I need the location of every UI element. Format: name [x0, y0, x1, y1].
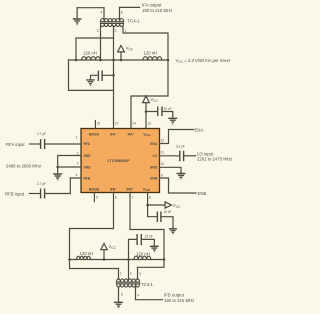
pin 5 stub	[93, 193, 95, 202]
svg-text:RFA input: RFA input	[6, 142, 25, 147]
ENA wire	[160, 130, 194, 144]
svg-text:RFB: RFB	[84, 177, 91, 181]
chip inside labels	[84, 132, 158, 193]
wire T1 pin3 to VCC rail	[100, 26, 102, 60]
VCC rail (top)	[69, 59, 169, 61]
VCC rail (bottom)	[70, 259, 165, 261]
svg-text:14: 14	[132, 122, 136, 126]
VCCA chain: pin13	[145, 112, 147, 129]
svg-text:11: 11	[161, 151, 165, 155]
svg-text:2261 to 2475 MHz: 2261 to 2475 MHz	[197, 157, 232, 162]
ground (C2)	[168, 118, 177, 124]
wires pins 2,3 GND	[58, 156, 81, 174]
svg-text:120 nH: 120 nH	[80, 251, 94, 256]
capacitor C6 10nF (VCCB bypass)	[148, 205, 158, 217]
svg-text:ENB: ENB	[150, 177, 157, 181]
svg-text:RFA: RFA	[84, 142, 91, 146]
T2 pin 6 lead to ground	[118, 287, 120, 302]
svg-text:GND: GND	[84, 154, 92, 158]
VCCB chain: pin8	[147, 193, 149, 206]
svg-text:ENB: ENB	[198, 191, 207, 196]
wire C3 to pin1	[45, 143, 81, 145]
svg-text:BIASA: BIASA	[89, 132, 100, 136]
wire T1 pin4 to ground	[77, 8, 104, 19]
svg-text:2: 2	[130, 272, 132, 276]
wire RFA to C3	[30, 143, 41, 145]
svg-text:6: 6	[121, 10, 123, 14]
LO input wire	[160, 155, 180, 157]
inductor L4 120 nH	[134, 256, 151, 259]
svg-text:1: 1	[124, 29, 126, 33]
svg-text:12: 12	[161, 139, 165, 143]
svg-text:TC4-1: TC4-1	[128, 19, 141, 24]
svg-text:GND: GND	[150, 166, 158, 170]
ground (C7)	[150, 246, 159, 251]
VCC arrow right (pin8)	[165, 202, 171, 208]
VCC arrow (bottom rail)	[101, 243, 117, 260]
svg-text:4: 4	[76, 173, 78, 177]
svg-text:2: 2	[77, 151, 79, 155]
chip U1 LTC5569	[81, 129, 160, 193]
svg-text:190 to 215 MHz: 190 to 215 MHz	[164, 298, 194, 303]
svg-text:120 nH: 120 nH	[144, 50, 158, 55]
node dot rail right	[167, 59, 170, 62]
svg-text:LTC5569IUF: LTC5569IUF	[107, 158, 130, 163]
svg-text:5: 5	[96, 196, 98, 200]
T2 pin leads top	[119, 278, 138, 280]
wire C4 to pin4	[45, 178, 81, 194]
svg-text:GND: GND	[84, 166, 92, 170]
svg-text:4: 4	[137, 293, 139, 297]
svg-text:LO: LO	[153, 154, 158, 158]
wire T1 pin1 to node / chip pin14 (IFA+)	[123, 26, 168, 129]
svg-text:3: 3	[77, 161, 79, 165]
T1 pin 4 lead	[103, 8, 105, 20]
svg-text:4: 4	[101, 10, 103, 14]
svg-text:15: 15	[115, 122, 119, 126]
inductor L3 120 nH	[77, 256, 91, 259]
capacitor C3 2.7pF	[41, 139, 45, 149]
capacitor C7 10nF (bottom bypass)	[127, 234, 154, 261]
svg-text:120 nH: 120 nH	[136, 252, 150, 257]
T1 pin 6 lead	[119, 7, 121, 19]
svg-text:IFB output: IFB output	[164, 293, 185, 298]
svg-text:TC4-1: TC4-1	[141, 282, 154, 287]
wire RFB to C4	[30, 193, 41, 195]
svg-text:RFB input: RFB input	[5, 192, 25, 197]
capacitor C2 10nF (VCCA bypass)	[146, 107, 173, 118]
svg-text:10 nF: 10 nF	[164, 107, 172, 111]
inductor L2 120 nH	[143, 57, 162, 60]
svg-text:BIASB: BIASB	[89, 187, 100, 191]
wire center tap T2	[128, 260, 130, 280]
ground (pins 2,3)	[53, 174, 62, 180]
svg-text:7: 7	[132, 196, 134, 200]
svg-text:6: 6	[115, 196, 117, 200]
inductor L1 120 nH	[82, 57, 101, 60]
svg-text:ENA: ENA	[150, 142, 157, 146]
svg-text:3: 3	[139, 272, 141, 276]
svg-text:10: 10	[161, 162, 165, 166]
svg-text:9: 9	[161, 173, 163, 177]
svg-text:1: 1	[76, 136, 78, 140]
wire T1 pin2 / chip pin15 (IFA-)	[113, 26, 115, 129]
svg-text:120 nH: 120 nH	[83, 50, 97, 55]
svg-text:2.7 pF: 2.7 pF	[37, 132, 46, 136]
svg-text:2496 to 2690 MHz: 2496 to 2690 MHz	[6, 164, 41, 169]
svg-text:1: 1	[120, 272, 122, 276]
pin 16 stub	[94, 121, 96, 129]
wire pin6 (IFB-) route	[70, 193, 119, 278]
wire jog rail left to pin15 line	[76, 38, 114, 60]
transformer T2 TC4-1 (IFB output transformer)	[117, 279, 140, 287]
svg-text:6: 6	[121, 292, 123, 296]
svg-text:16: 16	[97, 122, 101, 126]
capacitor C5 3.3pF	[180, 151, 184, 162]
capacitor C4 2.7pF	[41, 189, 45, 199]
chip pin number labels	[76, 122, 165, 200]
transformer T1 TC4-1 (IFA output transformer)	[101, 19, 124, 27]
svg-text:13: 13	[147, 122, 151, 126]
svg-text:3: 3	[97, 29, 99, 33]
ground (pin10)	[177, 174, 186, 180]
svg-text:2: 2	[115, 29, 117, 33]
T2 pin 4 lead to IFB output	[136, 287, 163, 300]
ENB wire	[160, 178, 197, 193]
svg-text:190 to 215 MHz: 190 to 215 MHz	[142, 8, 172, 13]
svg-text:8: 8	[149, 196, 151, 200]
svg-text:10 nF: 10 nF	[145, 235, 153, 239]
svg-text:10 nF: 10 nF	[163, 210, 171, 214]
ground (top left)	[73, 19, 82, 25]
ground (T2 pin6)	[114, 302, 123, 307]
wire pin7 (IFB+) route	[130, 193, 164, 278]
svg-text:ENA: ENA	[195, 127, 204, 132]
ground (C6)	[169, 229, 177, 234]
ground (C1)	[86, 80, 95, 86]
wire T1 pin6 to IFA output	[120, 6, 140, 8]
wire rail-left drop to pin15 riser	[69, 60, 114, 90]
svg-text:2.7 pF: 2.7 pF	[37, 182, 46, 186]
VCC arrow (top rail)	[118, 45, 134, 61]
capacitor C1 10nF (center tap bypass)	[91, 71, 115, 82]
svg-text:3.3 pF: 3.3 pF	[176, 145, 185, 149]
VCC arrow (pin13)	[143, 96, 159, 112]
pin10 ground wire	[160, 167, 182, 173]
